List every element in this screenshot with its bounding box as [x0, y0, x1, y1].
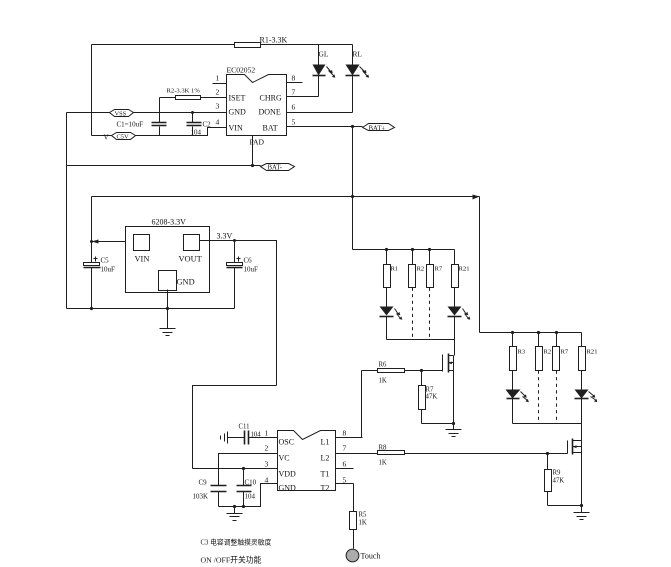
- svg-text:7: 7: [343, 444, 347, 453]
- node VSS: [110, 110, 134, 118]
- wire U2 ground rail: [219, 484, 278, 509]
- svg-text:1K: 1K: [379, 378, 387, 385]
- svg-text:BAT+: BAT+: [369, 126, 386, 133]
- pin VC label: [279, 454, 290, 463]
- capacitor C10: [237, 469, 257, 507]
- regulator 6208-3.3V body: [126, 218, 210, 293]
- resistor R7 array1: [427, 250, 443, 288]
- capacitor C2: [187, 111, 212, 137]
- svg-text:47K: 47K: [553, 478, 565, 485]
- capacitor C5: [84, 257, 116, 274]
- pin 8 U2: [343, 429, 347, 438]
- svg-text:C11: C11: [239, 424, 250, 431]
- resistor R2 array1: [409, 250, 425, 288]
- resistor R21 array2: [579, 333, 598, 371]
- resistor R5: [350, 512, 368, 530]
- pin 7 U1 wire to GL: [287, 88, 319, 97]
- svg-text:R2-3.3K 1%: R2-3.3K 1%: [167, 88, 201, 95]
- resistor R2: [160, 88, 227, 100]
- svg-text:R9: R9: [553, 470, 562, 477]
- svg-text:5: 5: [292, 118, 296, 127]
- pin L2 label: [321, 454, 330, 463]
- wire top rail: [92, 44, 353, 46]
- wire VSS line: [67, 112, 227, 114]
- wire gate1 riser to pin8: [336, 371, 363, 438]
- svg-text:6: 6: [343, 460, 347, 469]
- resistor R21 array1: [452, 250, 470, 288]
- svg-text:R21: R21: [587, 349, 598, 356]
- svg-text:2: 2: [216, 88, 220, 97]
- svg-text:ISET: ISET: [229, 94, 246, 103]
- wire VIN line with arrow: [90, 240, 134, 244]
- wire dashed column3 array1: [429, 288, 431, 340]
- svg-text:Touch: Touch: [361, 552, 381, 561]
- wire drain M2: [581, 424, 583, 441]
- wire dashed column2 array1: [412, 288, 414, 340]
- svg-text:BAT-: BAT-: [268, 165, 283, 172]
- pin 2 U2: [265, 444, 269, 453]
- svg-text:1: 1: [216, 74, 220, 83]
- wire C5V line to VIN pin4: [92, 128, 227, 136]
- svg-text:VC: VC: [279, 454, 290, 463]
- pin 4 U1: [216, 118, 220, 127]
- pin VDD label: [279, 470, 297, 479]
- svg-text:C2: C2: [203, 121, 212, 129]
- svg-text:C6: C6: [244, 257, 253, 265]
- pin BAT label: [263, 124, 278, 133]
- wire R7 bottom to source: [422, 423, 454, 425]
- pin VIN label: [229, 124, 243, 133]
- ground C11 side: [221, 432, 245, 444]
- svg-text:C5: C5: [101, 257, 110, 265]
- pin 5 U2: [336, 476, 354, 485]
- svg-text:8: 8: [292, 74, 296, 83]
- svg-text:2: 2: [265, 444, 269, 453]
- wire regulator GND stem: [166, 290, 169, 329]
- wire array1 bottom rail: [387, 339, 455, 341]
- svg-text:PAD: PAD: [250, 138, 265, 147]
- ground regulator: [160, 329, 176, 336]
- node BAT-: [261, 164, 295, 172]
- svg-text:R5: R5: [359, 512, 368, 519]
- wire BAT- line: [67, 165, 261, 167]
- pin 3 U1: [216, 102, 220, 111]
- svg-text:1: 1: [265, 429, 269, 438]
- svg-text:T2: T2: [321, 484, 330, 493]
- LED D1 array1: [380, 288, 403, 340]
- op-amp U2 touch controller body: [278, 431, 336, 491]
- note ON/OFF text: [201, 555, 262, 565]
- pin L1 label: [321, 438, 330, 447]
- pin GND label U2: [279, 484, 297, 493]
- wire left VSS rail: [66, 113, 68, 309]
- pin VOUT pad: [179, 235, 202, 264]
- svg-text:103K: 103K: [193, 493, 209, 501]
- svg-text:BAT: BAT: [263, 124, 278, 133]
- svg-text:L1: L1: [321, 438, 330, 447]
- capacitor C9: [193, 479, 227, 507]
- wire R9 bottom to source: [548, 505, 582, 507]
- wire mid horizontal BAT+ net: [92, 195, 480, 198]
- wire VOUT 3.3V line: [200, 232, 277, 386]
- svg-text:R1-3.3K: R1-3.3K: [260, 36, 288, 45]
- wire source M2 to ground: [580, 453, 583, 508]
- pin GND pad: [159, 271, 195, 291]
- resistor R8: [336, 445, 568, 467]
- svg-text:VSS: VSS: [115, 111, 127, 118]
- svg-text:3: 3: [216, 102, 220, 111]
- svg-text:R2: R2: [544, 349, 552, 356]
- ground U2: [227, 507, 243, 521]
- svg-text:3.3V: 3.3V: [217, 232, 233, 241]
- svg-text:104: 104: [251, 432, 262, 439]
- svg-text:C9: C9: [199, 479, 208, 487]
- svg-text:EC02052: EC02052: [227, 66, 256, 75]
- wire left C5V rail: [91, 45, 93, 136]
- wire VDD line: [193, 467, 278, 470]
- junction PAD/BAT-: [251, 164, 254, 167]
- resistor R1: [235, 36, 288, 48]
- svg-text:4: 4: [216, 118, 220, 127]
- svg-text:C1=10uF: C1=10uF: [117, 121, 144, 129]
- svg-text:1K: 1K: [359, 520, 367, 527]
- svg-text:104: 104: [245, 493, 256, 501]
- pin 7 U2: [343, 444, 347, 453]
- resistor R7 array2: [553, 333, 569, 371]
- touch pad: [346, 549, 380, 562]
- wire array2 bottom rail: [513, 423, 582, 425]
- pin 1 U1: [213, 74, 227, 84]
- svg-text:C5V: C5V: [117, 134, 129, 141]
- pin ISET label: [229, 94, 246, 103]
- wire R5 to touch pad: [353, 530, 355, 549]
- svg-text:7: 7: [292, 88, 296, 97]
- wire dashed column3 array2: [556, 371, 558, 424]
- wire array2 feed down: [473, 195, 480, 333]
- wire dashed column2 array2: [538, 371, 540, 424]
- op-amp U1 EC02052 body: [227, 66, 287, 136]
- capacitor C6: [227, 239, 259, 309]
- svg-text:GND: GND: [229, 108, 247, 117]
- wire BAT+ down: [352, 127, 354, 197]
- note C3 sensitivity text: [201, 538, 272, 547]
- svg-text:R8: R8: [379, 445, 388, 452]
- wire array1 feed down: [352, 197, 354, 250]
- pin 2 U1: [216, 88, 220, 97]
- svg-text:C10: C10: [245, 479, 257, 487]
- wire array1 top rail: [353, 248, 455, 251]
- svg-text:T1: T1: [321, 470, 330, 479]
- pin DONE label: [259, 108, 281, 117]
- junction pin5: [351, 125, 354, 128]
- svg-text:6: 6: [292, 103, 296, 112]
- resistor R6: [362, 362, 443, 385]
- ground Q2: [574, 506, 590, 520]
- pin GND label: [229, 108, 247, 117]
- transistor Q1: [443, 354, 454, 373]
- pin 5 U1 wire to BAT+: [287, 118, 363, 127]
- pin 3 U2: [265, 460, 269, 469]
- capacitor C1: [117, 98, 167, 136]
- svg-text:V: V: [104, 134, 109, 142]
- pin 1 U2: [253, 429, 278, 438]
- pin 4 U2: [265, 476, 269, 485]
- svg-text:RL: RL: [353, 50, 363, 59]
- svg-text:GND: GND: [279, 484, 297, 493]
- svg-text:VIN: VIN: [135, 255, 150, 264]
- pin T1 label: [321, 470, 330, 479]
- svg-text:3: 3: [265, 460, 269, 469]
- wire array2 top rail: [480, 331, 582, 334]
- svg-text:R7: R7: [426, 387, 435, 394]
- LED GL: [313, 45, 336, 97]
- pin 8 U1: [287, 74, 303, 83]
- svg-text:CHRG: CHRG: [260, 94, 282, 103]
- LED RL: [346, 45, 370, 113]
- pin CHRG label: [260, 94, 282, 103]
- svg-text:VOUT: VOUT: [179, 255, 202, 264]
- capacitor C11: [239, 424, 262, 445]
- svg-text:R3: R3: [518, 349, 526, 356]
- svg-text:5: 5: [343, 476, 347, 485]
- wire mid down to VIN: [90, 197, 93, 311]
- svg-text:10uF: 10uF: [244, 266, 259, 274]
- node BAT+: [363, 124, 395, 133]
- svg-text:GL: GL: [319, 50, 329, 59]
- svg-text:L2: L2: [321, 454, 330, 463]
- wire pin5 T2 down: [353, 484, 355, 512]
- LED D4 array2: [575, 371, 598, 424]
- resistor R7 pulldown: [419, 369, 438, 424]
- node C5V: [104, 133, 136, 142]
- resistor R1 array1: [384, 250, 399, 288]
- svg-text:10uF: 10uF: [101, 266, 116, 274]
- svg-text:1K: 1K: [379, 460, 387, 467]
- svg-text:R7: R7: [435, 266, 443, 273]
- pin 6 U2: [336, 460, 354, 469]
- svg-text:6208-3.3V: 6208-3.3V: [152, 218, 187, 227]
- svg-text:R6: R6: [379, 362, 388, 369]
- wire 3.3V to VDD: [193, 386, 277, 469]
- LED D2 array1: [448, 288, 471, 340]
- wire VC line: [219, 454, 278, 486]
- svg-text:VIN: VIN: [229, 124, 243, 133]
- LED D3 array2: [506, 371, 529, 424]
- svg-text:R21: R21: [459, 266, 470, 273]
- pin OSC label: [279, 438, 295, 447]
- svg-text:8: 8: [343, 429, 347, 438]
- svg-text:104: 104: [191, 129, 202, 137]
- transistor Q2: [568, 439, 582, 455]
- resistor R3 array2: [510, 333, 526, 371]
- svg-text:R7: R7: [561, 349, 569, 356]
- pin 6 U1 wire to RL: [287, 103, 353, 113]
- resistor R9 pulldown: [545, 452, 565, 506]
- svg-text:R1: R1: [391, 266, 399, 273]
- wire PAD stub: [250, 136, 265, 166]
- svg-text:DONE: DONE: [259, 108, 281, 117]
- resistor R2 array2: [536, 333, 552, 371]
- wire drain M1: [454, 340, 456, 356]
- wire bottom ground rail: [67, 308, 235, 310]
- svg-text:GND: GND: [177, 278, 195, 287]
- svg-text:C3 电容调整触摸灵敏度: C3 电容调整触摸灵敏度: [201, 538, 272, 547]
- pin T2 label: [321, 484, 330, 493]
- pin VIN pad: [134, 235, 150, 264]
- svg-text:OSC: OSC: [279, 438, 295, 447]
- svg-text:R2: R2: [417, 266, 425, 273]
- ground Q1: [446, 424, 462, 437]
- wire source M1 to ground: [452, 371, 455, 426]
- svg-text:ON /OFF开关功能: ON /OFF开关功能: [201, 555, 262, 565]
- svg-text:VDD: VDD: [279, 470, 297, 479]
- svg-text:47K: 47K: [426, 394, 438, 401]
